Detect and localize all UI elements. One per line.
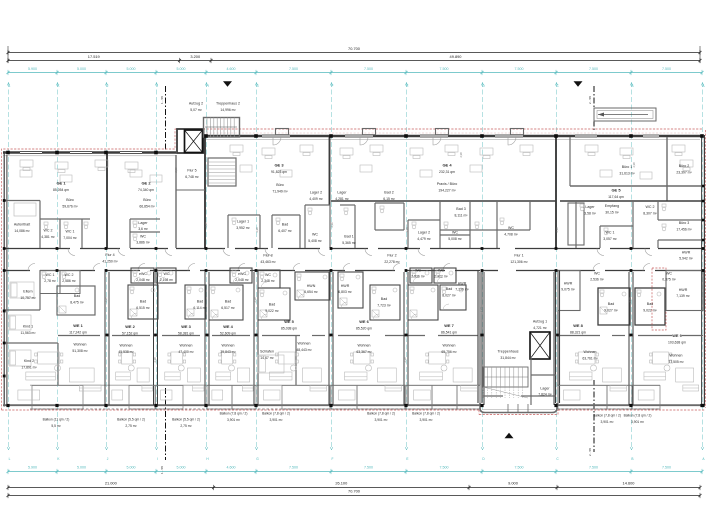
svg-text:2,38: 2,38 <box>632 162 636 168</box>
svg-text:2,38: 2,38 <box>153 357 157 363</box>
svg-text:WE 7: WE 7 <box>444 323 454 328</box>
section line 1-1 at x=165.5 <box>165 86 167 150</box>
svg-text:B: B <box>631 84 633 88</box>
columns on y=335 wall <box>106 334 109 337</box>
svg-text:8,307 m²: 8,307 m² <box>643 212 657 216</box>
svg-text:Aufzug 2: Aufzug 2 <box>189 102 203 106</box>
svg-text:14.600: 14.600 <box>623 481 636 486</box>
svg-text:Büro: Büro <box>66 198 74 202</box>
canopy top right <box>594 108 656 121</box>
cyan grid lines <box>8 82 10 450</box>
window bay bumps on top wall <box>276 129 289 135</box>
svg-text:Flur 4: Flur 4 <box>105 253 114 257</box>
svg-text:2,586 m²: 2,586 m² <box>62 279 76 283</box>
svg-text:2,38: 2,38 <box>104 297 108 303</box>
svg-text:Büro 1: Büro 1 <box>622 165 633 169</box>
svg-text:66,854 m²: 66,854 m² <box>139 205 155 209</box>
svg-text:F: F <box>332 457 334 461</box>
apartment inner wall y=335 <box>58 335 100 337</box>
svg-text:Balkon (7,8 qm / 2): Balkon (7,8 qm / 2) <box>624 414 652 418</box>
svg-text:5,408 m²: 5,408 m² <box>308 239 322 243</box>
svg-text:WC: WC <box>452 231 458 235</box>
svg-text:6,803 m²: 6,803 m² <box>338 290 352 294</box>
svg-text:1 - S5: 1 - S5 <box>160 466 164 474</box>
entrance arrow triangle <box>505 433 514 439</box>
svg-text:4,721 m²: 4,721 m² <box>533 326 547 330</box>
svg-text:117,242 qm: 117,242 qm <box>69 331 87 335</box>
svg-text:HWR: HWR <box>682 251 691 255</box>
entrance door arcs below top wall <box>273 137 281 145</box>
svg-text:I: I <box>157 84 158 88</box>
svg-text:Lager 1: Lager 1 <box>237 220 249 224</box>
svg-text:E: E <box>406 457 408 461</box>
svg-text:Büro: Büro <box>143 198 151 202</box>
svg-text:7.500: 7.500 <box>515 67 524 71</box>
svg-text:39,843 m²: 39,843 m² <box>220 350 236 354</box>
red dashed envelope <box>2 129 704 410</box>
svg-text:Büro: Büro <box>276 183 284 187</box>
svg-text:WC: WC <box>140 235 146 239</box>
svg-text:2,198 m²: 2,198 m² <box>160 278 174 282</box>
svg-text:Lager 2: Lager 2 <box>418 231 430 235</box>
svg-text:48,443 m²: 48,443 m² <box>296 348 312 352</box>
svg-text:WC 1: WC 1 <box>66 230 75 234</box>
svg-text:3,901 m²: 3,901 m² <box>269 418 283 422</box>
svg-text:8,027 m²: 8,027 m² <box>442 294 456 298</box>
corridor door arcs <box>68 249 75 256</box>
svg-text:5.000: 5.000 <box>77 466 86 470</box>
svg-text:9,075 m²: 9,075 m² <box>561 288 575 292</box>
svg-text:Lager: Lager <box>585 205 595 209</box>
svg-text:14,086 m²: 14,086 m² <box>14 229 30 233</box>
svg-text:3.200: 3.200 <box>190 54 201 59</box>
svg-text:2 - S5: 2 - S5 <box>588 96 592 104</box>
svg-text:9.000: 9.000 <box>508 481 519 486</box>
svg-text:5.000: 5.000 <box>77 67 86 71</box>
svg-text:Flur 3: Flur 3 <box>263 254 272 258</box>
apartment party walls (double line) <box>104 272 106 405</box>
svg-text:Empfang: Empfang <box>605 204 619 208</box>
svg-text:2,78 m²: 2,78 m² <box>44 279 56 283</box>
svg-text:Bad 3: Bad 3 <box>456 207 465 211</box>
svg-text:77,505 m²: 77,505 m² <box>668 360 684 364</box>
furniture: office desks <box>20 160 33 167</box>
balcony boxes <box>32 386 83 410</box>
office band interior vertical walls <box>106 154 108 248</box>
svg-text:3,901 m²: 3,901 m² <box>600 420 614 424</box>
svg-text:3,057 m²: 3,057 m² <box>603 237 617 241</box>
svg-text:59,676 m²: 59,676 m² <box>62 205 78 209</box>
svg-text:L: L <box>9 457 11 461</box>
svg-text:HWN: HWN <box>307 284 316 288</box>
svg-text:6,654 m²: 6,654 m² <box>304 290 318 294</box>
svg-text:3,886 m²: 3,886 m² <box>136 241 150 245</box>
svg-text:9,027 m²: 9,027 m² <box>604 309 618 313</box>
svg-text:WE 4: WE 4 <box>223 324 233 329</box>
svg-text:Treppenhaus: Treppenhaus <box>497 350 518 354</box>
svg-text:WE 1: WE 1 <box>73 323 83 328</box>
svg-text:6,515 m²: 6,515 m² <box>136 306 150 310</box>
svg-text:91,823 qm: 91,823 qm <box>271 170 287 174</box>
svg-text:WC: WC <box>415 269 421 273</box>
svg-text:2,536 m²: 2,536 m² <box>411 275 425 279</box>
svg-text:B: B <box>631 457 633 461</box>
svg-text:8,111 m²: 8,111 m² <box>455 214 469 218</box>
section marker triangles <box>223 81 232 87</box>
svg-text:Flur 1: Flur 1 <box>514 254 523 258</box>
svg-text:WC: WC <box>438 269 444 273</box>
wall columns (black squares) <box>6 151 10 155</box>
svg-text:F: F <box>332 84 334 88</box>
svg-text:5,5 m²: 5,5 m² <box>51 424 61 428</box>
svg-text:7.500: 7.500 <box>289 67 298 71</box>
svg-text:5.900: 5.900 <box>28 466 37 470</box>
svg-text:GE 2: GE 2 <box>141 181 151 186</box>
svg-text:86,541 qm: 86,541 qm <box>441 331 457 335</box>
svg-text:17.519: 17.519 <box>88 54 100 59</box>
svg-text:17,891 m²: 17,891 m² <box>21 366 37 370</box>
svg-text:WC 2: WC 2 <box>646 205 655 209</box>
svg-text:6,517 m²: 6,517 m² <box>221 306 235 310</box>
svg-text:Flur 2: Flur 2 <box>387 254 396 258</box>
svg-text:6,407 m²: 6,407 m² <box>278 229 292 233</box>
svg-text:4,479 m²: 4,479 m² <box>417 237 431 241</box>
stair Treppenhaus 1 treads <box>483 367 528 387</box>
svg-text:Aufzug 1: Aufzug 1 <box>533 320 547 324</box>
svg-text:5,365 m²: 5,365 m² <box>342 241 356 245</box>
svg-text:WC 1: WC 1 <box>46 273 55 277</box>
svg-text:30,15 m²: 30,15 m² <box>605 211 619 215</box>
WE8/WE9 bad rooms <box>558 271 580 311</box>
svg-text:14,47 m²: 14,47 m² <box>260 356 274 360</box>
svg-text:I: I <box>157 457 158 461</box>
svg-text:Eltern: Eltern <box>23 290 32 294</box>
svg-text:57,152 qm: 57,152 qm <box>122 332 138 336</box>
svg-text:HWR: HWR <box>564 282 573 286</box>
svg-text:45,538 m²: 45,538 m² <box>118 350 134 354</box>
svg-text:6,748 m²: 6,748 m² <box>185 175 199 179</box>
door arcs: bath rooms <box>134 277 140 283</box>
svg-text:117,64 qm: 117,64 qm <box>608 195 624 199</box>
stair Treppenhaus 2 <box>204 118 240 138</box>
svg-text:49.890: 49.890 <box>450 54 463 59</box>
svg-text:5.000: 5.000 <box>127 466 136 470</box>
svg-text:WC 2: WC 2 <box>44 229 53 233</box>
svg-text:Bad: Bad <box>140 300 146 304</box>
svg-text:Balkon (5,5 qm / 2): Balkon (5,5 qm / 2) <box>172 418 200 422</box>
svg-text:5.000: 5.000 <box>177 67 186 71</box>
svg-text:0,375 m²: 0,375 m² <box>662 278 676 282</box>
svg-text:2,536 m²: 2,536 m² <box>590 278 604 282</box>
svg-text:70.700: 70.700 <box>348 489 361 494</box>
svg-text:7.500: 7.500 <box>662 466 671 470</box>
svg-text:2,75 m²: 2,75 m² <box>180 424 192 428</box>
furniture: Wohnen rooms <box>38 352 60 364</box>
bottom dimension row: 21.000 / 26.100 / 9.000 / 14.600 <box>8 487 700 489</box>
svg-text:Bad: Bad <box>647 302 653 306</box>
svg-text:2,348 m²: 2,348 m² <box>261 279 275 283</box>
svg-text:58,381 qm: 58,381 qm <box>178 332 194 336</box>
svg-text:6,114 m²: 6,114 m² <box>193 306 207 310</box>
svg-text:2,38: 2,38 <box>628 297 632 303</box>
svg-text:3,58 m²: 3,58 m² <box>584 212 596 216</box>
svg-text:7.500: 7.500 <box>364 466 373 470</box>
svg-text:7.500: 7.500 <box>589 466 598 470</box>
svg-text:5.000: 5.000 <box>127 67 136 71</box>
svg-text:Wohnen: Wohnen <box>120 344 133 348</box>
svg-text:Bad: Bad <box>282 223 288 227</box>
svg-text:Bad: Bad <box>74 294 80 298</box>
svg-text:GE 1: GE 1 <box>56 181 66 186</box>
svg-text:85,054 qm: 85,054 qm <box>53 188 69 192</box>
svg-text:4,409 m²: 4,409 m² <box>309 197 323 201</box>
svg-text:5,07 m²: 5,07 m² <box>190 108 202 112</box>
window segments in top walls (slightly lighter) <box>20 151 42 154</box>
svg-text:L: L <box>9 84 11 88</box>
svg-text:Büro 2: Büro 2 <box>679 164 690 168</box>
wall between Treppenhaus and vestibule <box>482 395 503 397</box>
svg-text:Lager: Lager <box>540 387 550 391</box>
svg-text:2,38: 2,38 <box>459 152 463 158</box>
elevator Aufzug 2 crossed box <box>185 130 203 153</box>
svg-text:4.600: 4.600 <box>227 466 236 470</box>
svg-text:232,31 qm: 232,31 qm <box>439 170 455 174</box>
svg-text:121,306 m²: 121,306 m² <box>510 260 528 264</box>
svg-text:2,38: 2,38 <box>253 297 257 303</box>
svg-text:5,942 m²: 5,942 m² <box>679 257 693 261</box>
svg-text:WE 2: WE 2 <box>125 324 135 329</box>
svg-text:14,996 m²: 14,996 m² <box>220 108 236 112</box>
svg-text:3,901 m²: 3,901 m² <box>631 420 645 424</box>
svg-text:51,308 m²: 51,308 m² <box>72 349 88 353</box>
office band room partition walls <box>3 200 40 202</box>
svg-text:Bad: Bad <box>269 303 275 307</box>
svg-text:17,456 m²: 17,456 m² <box>676 228 692 232</box>
svg-text:Büro 3: Büro 3 <box>679 221 690 225</box>
svg-text:6,15 m²: 6,15 m² <box>383 197 395 201</box>
section line 2-2 at x=594 <box>593 86 595 130</box>
svg-text:WC: WC <box>508 226 514 230</box>
svg-text:74,340 qm: 74,340 qm <box>138 188 154 192</box>
svg-text:eWC: eWC <box>238 272 246 276</box>
svg-text:70.700: 70.700 <box>348 46 361 51</box>
svg-text:Bad: Bad <box>446 287 452 291</box>
svg-text:Balkon (11 qm / 2): Balkon (11 qm / 2) <box>43 418 70 422</box>
svg-text:Balkon (7,8 qm / 2): Balkon (7,8 qm / 2) <box>593 414 621 418</box>
svg-text:HWR: HWR <box>458 282 467 286</box>
WE5 Schlafen room <box>295 335 297 385</box>
svg-text:7,723 m²: 7,723 m² <box>377 304 391 308</box>
svg-text:4,381 m²: 4,381 m² <box>41 235 55 239</box>
svg-text:WC: WC <box>594 272 600 276</box>
svg-text:5.900: 5.900 <box>28 67 37 71</box>
svg-text:Wohnen: Wohnen <box>443 344 456 348</box>
svg-text:Schlafen: Schlafen <box>260 350 274 354</box>
elevator Aufzug 1 <box>530 332 550 359</box>
svg-text:7.500: 7.500 <box>440 67 449 71</box>
svg-text:7,004 m²: 7,004 m² <box>63 236 77 240</box>
furniture: office band small rooms <box>44 222 48 225</box>
svg-text:2,75 m²: 2,75 m² <box>125 424 137 428</box>
svg-text:2,38: 2,38 <box>479 307 483 313</box>
svg-text:Aufenthalt: Aufenthalt <box>14 223 30 227</box>
bottom cyan bay dimensions <box>8 471 702 473</box>
svg-text:Treppenhaus 2: Treppenhaus 2 <box>216 102 240 106</box>
svg-text:22,278 m²: 22,278 m² <box>384 260 400 264</box>
svg-text:31,613 m²: 31,613 m² <box>619 172 635 176</box>
svg-text:Praxis / Büro: Praxis / Büro <box>437 182 458 186</box>
svg-text:43,463 m²: 43,463 m² <box>260 260 276 264</box>
svg-text:3,952 m²: 3,952 m² <box>236 226 250 230</box>
svg-text:Kind 2: Kind 2 <box>24 359 34 363</box>
svg-text:Balkon (7,8 qm / 2): Balkon (7,8 qm / 2) <box>412 412 440 416</box>
svg-text:WC: WC <box>265 273 271 277</box>
svg-text:1 - S5: 1 - S5 <box>160 96 164 104</box>
svg-text:52,609 qm: 52,609 qm <box>220 332 236 336</box>
svg-text:65,756 m²: 65,756 m² <box>441 350 457 354</box>
svg-text:E: E <box>406 84 408 88</box>
svg-text:WC: WC <box>312 233 318 237</box>
furniture: bath fixtures <box>133 270 137 273</box>
svg-text:Bad: Bad <box>225 300 231 304</box>
svg-text:Wohnen: Wohnen <box>584 350 597 354</box>
svg-text:88,321 qm: 88,321 qm <box>570 331 586 335</box>
svg-text:4,708 m²: 4,708 m² <box>504 233 518 237</box>
svg-text:Bad 2: Bad 2 <box>384 191 393 195</box>
svg-text:26.100: 26.100 <box>335 481 348 486</box>
svg-text:Bad: Bad <box>381 297 387 301</box>
svg-text:63,761 m²: 63,761 m² <box>582 357 598 361</box>
svg-text:WC: WC <box>164 272 170 276</box>
svg-text:Balkon (7,8 qm / 2): Balkon (7,8 qm / 2) <box>367 412 395 416</box>
svg-text:Balkon (5,5 qm / 2): Balkon (5,5 qm / 2) <box>117 418 145 422</box>
svg-text:Bad 1: Bad 1 <box>344 235 353 239</box>
left wing interior stair (Flur 5 / stair) <box>208 158 236 186</box>
svg-text:3,6 m²: 3,6 m² <box>138 227 148 231</box>
svg-text:63,367 m²: 63,367 m² <box>356 350 372 354</box>
svg-text:WE 3: WE 3 <box>181 324 191 329</box>
svg-text:Lager 2: Lager 2 <box>310 191 322 195</box>
svg-text:2,38: 2,38 <box>555 227 559 233</box>
svg-text:Wohnen: Wohnen <box>74 343 87 347</box>
svg-text:23,397 m²: 23,397 m² <box>676 171 692 175</box>
svg-text:7.500: 7.500 <box>364 67 373 71</box>
svg-text:Bad: Bad <box>197 300 203 304</box>
svg-text:103,638 qm: 103,638 qm <box>668 341 686 345</box>
svg-text:2,322 m²: 2,322 m² <box>434 275 448 279</box>
svg-text:Lager: Lager <box>337 191 347 195</box>
svg-text:WE 8: WE 8 <box>573 323 583 328</box>
svg-text:47,400 m²: 47,400 m² <box>178 350 194 354</box>
svg-text:GE 3: GE 3 <box>274 163 284 168</box>
svg-text:2,38: 2,38 <box>330 222 334 228</box>
stair/elevator block top (Aufzug 2 / Treppenhaus 2) <box>177 129 204 153</box>
svg-text:11,563 m²: 11,563 m² <box>20 331 36 335</box>
svg-text:3,901 m²: 3,901 m² <box>227 418 241 422</box>
svg-text:7.500: 7.500 <box>662 67 671 71</box>
svg-text:Balkon (7,8 qm / 2): Balkon (7,8 qm / 2) <box>262 412 290 416</box>
svg-text:7.500: 7.500 <box>515 466 524 470</box>
svg-text:HWR: HWR <box>679 288 688 292</box>
svg-text:2,048 m²: 2,048 m² <box>136 278 150 282</box>
svg-text:WE 5: WE 5 <box>284 319 294 324</box>
svg-text:7,139 m²: 7,139 m² <box>676 294 690 298</box>
svg-text:8,475 m²: 8,475 m² <box>70 301 84 305</box>
svg-text:WC 1: WC 1 <box>606 231 615 235</box>
svg-text:9,022 m²: 9,022 m² <box>265 309 279 313</box>
svg-text:Wohnen: Wohnen <box>298 342 311 346</box>
svg-text:41,250 m²: 41,250 m² <box>102 260 118 264</box>
exterior walls <box>3 151 176 154</box>
entrance vestibule <box>480 403 557 413</box>
central stair block (Treppenhaus 1 / Aufzug 1) <box>477 271 479 404</box>
svg-text:eWC: eWC <box>139 272 147 276</box>
svg-text:7,139 m²: 7,139 m² <box>455 288 469 292</box>
top dimension row 1: 70.700 <box>7 46 9 63</box>
Lager room in core <box>531 374 556 376</box>
svg-text:Wohnen: Wohnen <box>358 344 371 348</box>
svg-text:9,022 m²: 9,022 m² <box>643 309 657 313</box>
svg-text:Wohnen: Wohnen <box>222 344 235 348</box>
svg-text:Wohnen: Wohnen <box>180 344 193 348</box>
corridor wall segments across core <box>480 248 500 250</box>
svg-text:5,008 m²: 5,008 m² <box>448 237 462 241</box>
svg-text:Balkon (7,8 qm / 2): Balkon (7,8 qm / 2) <box>220 412 248 416</box>
furniture: GE1 GE2 desks lower <box>20 170 32 177</box>
svg-text:2,38: 2,38 <box>174 167 178 173</box>
WE1 left rooms <box>3 309 40 311</box>
svg-text:GE 5: GE 5 <box>611 188 621 193</box>
apartment bathroom band partitions <box>131 268 154 283</box>
svg-text:2 - S5: 2 - S5 <box>588 448 592 456</box>
svg-text:85,520 qm: 85,520 qm <box>356 327 372 331</box>
furniture: beds left column <box>10 282 34 298</box>
svg-text:3,901 m²: 3,901 m² <box>419 418 433 422</box>
svg-text:Wohnen: Wohnen <box>670 354 683 358</box>
top dimension row 2: 17.519 / 3.200 / 49.890 <box>8 60 700 62</box>
bottom dimension row: 70.700 <box>8 495 700 497</box>
svg-text:WC: WC <box>666 272 672 276</box>
svg-text:31,844 m²: 31,844 m² <box>500 356 516 360</box>
svg-text:21.000: 21.000 <box>105 481 118 486</box>
top cyan bay dimensions <box>8 72 702 74</box>
svg-text:GE 4: GE 4 <box>442 163 452 168</box>
svg-text:71,949 m²: 71,949 m² <box>272 190 288 194</box>
svg-text:Kind 1: Kind 1 <box>23 325 33 329</box>
svg-text:HWR: HWR <box>341 284 350 288</box>
svg-text:194,227 m²: 194,227 m² <box>438 189 456 193</box>
svg-text:85,038 qm: 85,038 qm <box>281 327 297 331</box>
svg-text:4,281 m²: 4,281 m² <box>335 197 349 201</box>
svg-text:WE 9: WE 9 <box>672 333 682 338</box>
svg-text:2,38: 2,38 <box>255 227 259 233</box>
svg-text:Flur 5: Flur 5 <box>187 169 196 173</box>
svg-text:Lager: Lager <box>138 221 148 225</box>
corridor walls with door gaps <box>3 248 70 250</box>
svg-text:7.500: 7.500 <box>440 466 449 470</box>
svg-text:2,38: 2,38 <box>403 357 407 363</box>
svg-text:4.600: 4.600 <box>227 67 236 71</box>
columns on exterior side walls <box>3 199 6 202</box>
svg-text:7.500: 7.500 <box>589 67 598 71</box>
svg-text:WC 2: WC 2 <box>65 273 74 277</box>
svg-text:5.000: 5.000 <box>177 466 186 470</box>
svg-text:Bad: Bad <box>608 302 614 306</box>
svg-text:7,824 m²: 7,824 m² <box>538 393 552 397</box>
svg-text:WE 6: WE 6 <box>359 319 369 324</box>
svg-text:2,048 m²: 2,048 m² <box>235 278 249 282</box>
svg-text:3,901 m²: 3,901 m² <box>374 418 388 422</box>
